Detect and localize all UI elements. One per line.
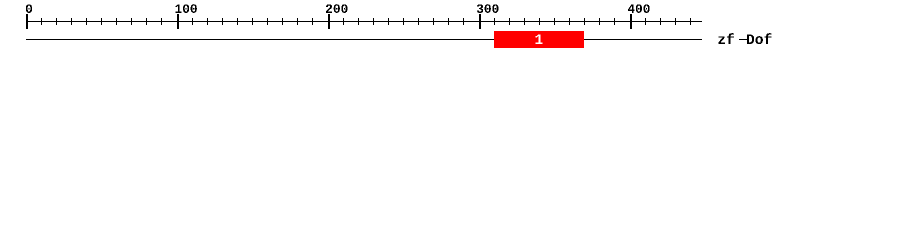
ruler minor tick at residue 360: [569, 18, 570, 25]
ruler minor tick at residue 30: [71, 18, 72, 25]
ruler minor tick at residue 120: [207, 18, 208, 25]
ruler minor tick at residue 60: [116, 18, 117, 25]
ruler minor tick at residue 260: [418, 18, 419, 25]
ruler minor tick at residue 160: [267, 18, 268, 25]
ruler minor tick at residue 310: [494, 18, 495, 25]
ruler minor tick at residue 350: [554, 18, 555, 25]
ruler minor tick at residue 330: [524, 18, 525, 25]
ruler minor tick at residue 80: [146, 18, 147, 25]
ruler minor tick at residue 230: [373, 18, 374, 25]
hyphen of zf-Dof label: [739, 39, 747, 40]
domain name label zf (of zf-Dof): [718, 33, 734, 44]
ruler minor tick at residue 110: [192, 18, 193, 25]
ruler major tick at residue 0: [26, 14, 28, 29]
ruler minor tick at residue 340: [539, 18, 540, 25]
ruler scale label 0: [26, 4, 32, 13]
ruler minor tick at residue 50: [101, 18, 102, 25]
ruler minor tick at residue 440: [690, 18, 691, 25]
ruler minor tick at residue 170: [282, 18, 283, 25]
ruler minor tick at residue 10: [41, 18, 42, 25]
domain name label Dof (of zf-Dof): [747, 33, 772, 44]
ruler scale label 200: [326, 4, 348, 13]
domain box label 1: [535, 34, 542, 44]
ruler scale label 100: [175, 4, 196, 13]
domain match box (zf-Dof hit), residues ~310-369: [494, 31, 584, 48]
ruler minor tick at residue 290: [463, 18, 464, 25]
ruler major tick at residue 100: [177, 14, 179, 29]
ruler major tick at residue 300: [479, 14, 481, 29]
ruler minor tick at residue 410: [645, 18, 646, 25]
ruler minor tick at residue 250: [403, 18, 404, 25]
sequence line: [26, 39, 702, 40]
ruler minor tick at residue 180: [297, 18, 298, 25]
ruler minor tick at residue 20: [56, 18, 57, 25]
ruler minor tick at residue 270: [433, 18, 434, 25]
ruler minor tick at residue 280: [448, 18, 449, 25]
ruler minor tick at residue 220: [358, 18, 359, 25]
ruler scale label 300: [477, 4, 499, 13]
ruler minor tick at residue 370: [584, 18, 585, 25]
ruler axis line: [26, 21, 702, 22]
ruler scale label 400: [628, 4, 650, 13]
ruler minor tick at residue 90: [161, 18, 162, 25]
ruler minor tick at residue 70: [131, 18, 132, 25]
ruler major tick at residue 400: [630, 14, 632, 29]
ruler minor tick at residue 140: [237, 18, 238, 25]
ruler minor tick at residue 40: [86, 18, 87, 25]
ruler minor tick at residue 190: [312, 18, 313, 25]
ruler minor tick at residue 240: [388, 18, 389, 25]
ruler minor tick at residue 420: [660, 18, 661, 25]
ruler major tick at residue 200: [328, 14, 330, 29]
ruler minor tick at residue 380: [599, 18, 600, 25]
ruler minor tick at residue 430: [675, 18, 676, 25]
ruler minor tick at residue 130: [222, 18, 223, 25]
ruler minor tick at residue 320: [509, 18, 510, 25]
ruler minor tick at residue 390: [614, 18, 615, 25]
ruler minor tick at residue 210: [343, 18, 344, 25]
ruler minor tick at residue 150: [252, 18, 253, 25]
